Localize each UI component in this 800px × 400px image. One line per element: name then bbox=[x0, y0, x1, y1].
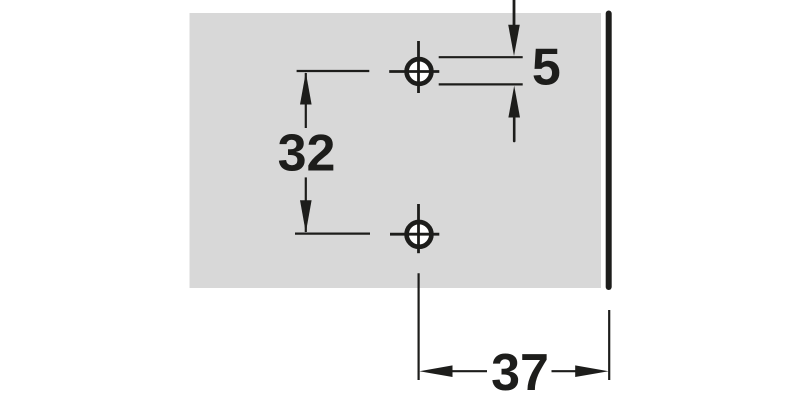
hole symbol bottom (circle + crosshair) bbox=[390, 204, 439, 253]
extension line: left ext of dim 37 (below hole) bbox=[418, 273, 420, 380]
extension line: upper ext of dim 5 bbox=[439, 56, 523, 58]
svg-text:37: 37 bbox=[491, 344, 549, 400]
extension line: top ext of dim 32 bbox=[297, 70, 370, 72]
dimension line 37 (horizontal, with gap for text) bbox=[452, 370, 487, 372]
arrowhead left (dim 37) bbox=[419, 365, 452, 377]
arrowhead right (dim 37) bbox=[575, 365, 608, 377]
extension line: lower ext of dim 5 bbox=[439, 83, 523, 85]
svg-text:32: 32 bbox=[278, 125, 336, 183]
svg-text:5: 5 bbox=[532, 38, 561, 96]
extension line: bottom ext of dim 32 bbox=[295, 233, 370, 235]
panel front edge (thick line) bbox=[606, 14, 612, 288]
arrowhead up (dim 32 top) bbox=[300, 72, 312, 104]
arrowhead down (dim 32 bottom) bbox=[300, 200, 312, 232]
dim 5 bottom arrow (pointing up) bbox=[508, 86, 520, 118]
panel (mounting surface) bbox=[190, 13, 602, 288]
hole symbol top (circle + crosshair) bbox=[389, 41, 439, 93]
extension line: right ext of dim 37 (below edge) bbox=[608, 310, 610, 380]
dim 5 top arrow (pointing down) bbox=[513, 0, 516, 26]
dimension line 32 (vertical, with gap for text) bbox=[305, 73, 307, 128]
